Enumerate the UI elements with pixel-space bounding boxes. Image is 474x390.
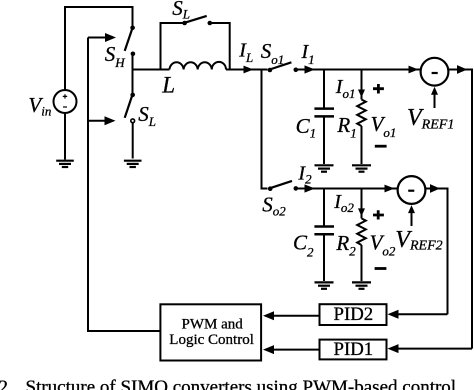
arrowhead I_L	[244, 66, 254, 74]
svg-text:L: L	[161, 72, 175, 97]
svg-text:PWM and: PWM and	[182, 316, 244, 332]
wire capacitor C2 top	[323, 189, 325, 226]
svg-text:Structure of SIMO converters u: Structure of SIMO converters using PWM-b…	[26, 377, 461, 390]
svg-text:Logic Control: Logic Control	[169, 332, 254, 348]
control line vertical from PWM	[88, 38, 160, 332]
svg-text:C1: C1	[296, 114, 317, 141]
wire capacitor C1 bottom	[323, 117, 325, 164]
wire resistor R1 top	[361, 70, 363, 100]
wire vertical2 to PID2	[396, 313, 448, 315]
arrowhead into summing 2	[385, 185, 395, 193]
arrowhead V_REF2 up	[408, 205, 415, 213]
capacitor C1 plates	[314, 109, 334, 117]
label plus 1	[373, 84, 384, 94]
wire Vin bottom	[64, 113, 66, 160]
arrowhead PID1 to PWM	[263, 345, 274, 354]
switch S_o2	[268, 181, 298, 191]
svg-text:Vo1: Vo1	[371, 112, 397, 140]
wire summing1 to right edge	[449, 70, 473, 349]
wire summing2 to vertical	[426, 189, 448, 315]
voltage source Vin	[54, 90, 77, 113]
wire left vertical to Vin	[64, 6, 66, 90]
svg-text:SH: SH	[105, 42, 126, 70]
arrowhead I_1	[305, 65, 316, 73]
arrowhead into summing 1	[409, 66, 419, 74]
wire resistor R2 bottom	[361, 245, 363, 281]
wire capacitor C2 bottom	[323, 235, 325, 281]
arrowhead V_REF1 up	[431, 87, 438, 95]
svg-text:So2: So2	[262, 193, 286, 219]
wire resistor R2 top	[361, 189, 363, 219]
wire inductor rail	[133, 69, 268, 71]
wire PID2 to PWM	[271, 315, 320, 317]
wire S_H to rail junction and to S_L	[132, 55, 134, 94]
wire junction drop to S_o2	[262, 70, 268, 189]
arrowhead I_2	[305, 184, 316, 192]
wire top rail	[65, 6, 133, 8]
summing junction 1	[421, 58, 449, 86]
svg-text:C2: C2	[293, 231, 314, 260]
ground C1	[315, 165, 334, 171]
svg-text:2.: 2.	[0, 377, 13, 390]
resistor R2 zigzag	[357, 218, 366, 245]
svg-text:VREF2: VREF2	[395, 227, 442, 254]
switch S_L bypass	[182, 16, 212, 25]
arrowhead summing2 out	[430, 184, 440, 193]
svg-text:VREF1: VREF1	[407, 105, 454, 132]
svg-text:I2: I2	[297, 162, 312, 186]
wire V_REF1 arrow stem	[434, 94, 436, 108]
arrowhead I_o1 current	[358, 90, 365, 98]
ground R2	[352, 282, 371, 288]
capacitor C2 plates	[314, 227, 334, 235]
wire S_H drop from rail	[132, 6, 134, 26]
resistor R1 zigzag	[357, 100, 366, 127]
arrowhead I_o2 current	[358, 208, 365, 216]
arrowhead into PID1	[388, 344, 399, 353]
svg-text:SL: SL	[138, 102, 156, 129]
svg-text:I1: I1	[301, 41, 315, 67]
wire PID1 to PWM	[271, 349, 320, 351]
svg-text:R1: R1	[336, 113, 356, 140]
svg-text:PID2: PID2	[334, 304, 374, 325]
svg-text:Vin: Vin	[28, 93, 51, 119]
switch S_o1	[268, 62, 299, 72]
wire V_REF2 arrow stem	[411, 212, 413, 226]
summing junction 2	[398, 176, 426, 204]
PWM and Logic Control box	[160, 304, 261, 360]
ground R1	[352, 165, 371, 171]
switch S_H	[125, 25, 136, 56]
svg-text:PID1: PID1	[334, 339, 374, 360]
arrowhead into PID2	[388, 310, 399, 319]
svg-text:IL: IL	[238, 40, 253, 65]
control arrowhead S_L	[105, 116, 116, 125]
ground S_L	[124, 161, 142, 167]
svg-text:Io1: Io1	[335, 76, 356, 101]
wire resistor R1 bottom	[361, 126, 363, 164]
ground Vin	[56, 161, 74, 167]
svg-text:SL: SL	[172, 0, 190, 21]
wire right edge to PID1	[396, 348, 472, 350]
svg-text:So1: So1	[261, 39, 285, 67]
wire S_o1 to output rail 1	[298, 69, 421, 71]
arrowhead summing1 out	[457, 65, 467, 74]
svg-text:Io2: Io2	[333, 191, 354, 215]
wire bypass branch right	[212, 23, 230, 70]
control arrow to S_H	[88, 37, 107, 39]
PID1 box	[320, 339, 387, 360]
PID2 box	[320, 304, 387, 325]
svg-text:Vo2: Vo2	[370, 230, 396, 258]
label plus 2	[373, 210, 384, 219]
control arrow to S_L	[88, 120, 106, 122]
wire S_o2 to output rail 2	[298, 188, 398, 190]
label minus 1	[375, 145, 387, 148]
wire S_L to ground	[132, 123, 134, 159]
inductor L	[170, 62, 227, 70]
wire capacitor C1 top	[323, 70, 325, 108]
svg-text:R2: R2	[335, 231, 356, 259]
switch S_L low	[125, 93, 135, 123]
control arrowhead S_H	[105, 33, 116, 42]
ground C2	[315, 282, 334, 288]
label minus 2	[375, 267, 387, 270]
arrowhead PID2 to PWM	[263, 311, 274, 320]
wire bypass branch left	[161, 23, 183, 70]
